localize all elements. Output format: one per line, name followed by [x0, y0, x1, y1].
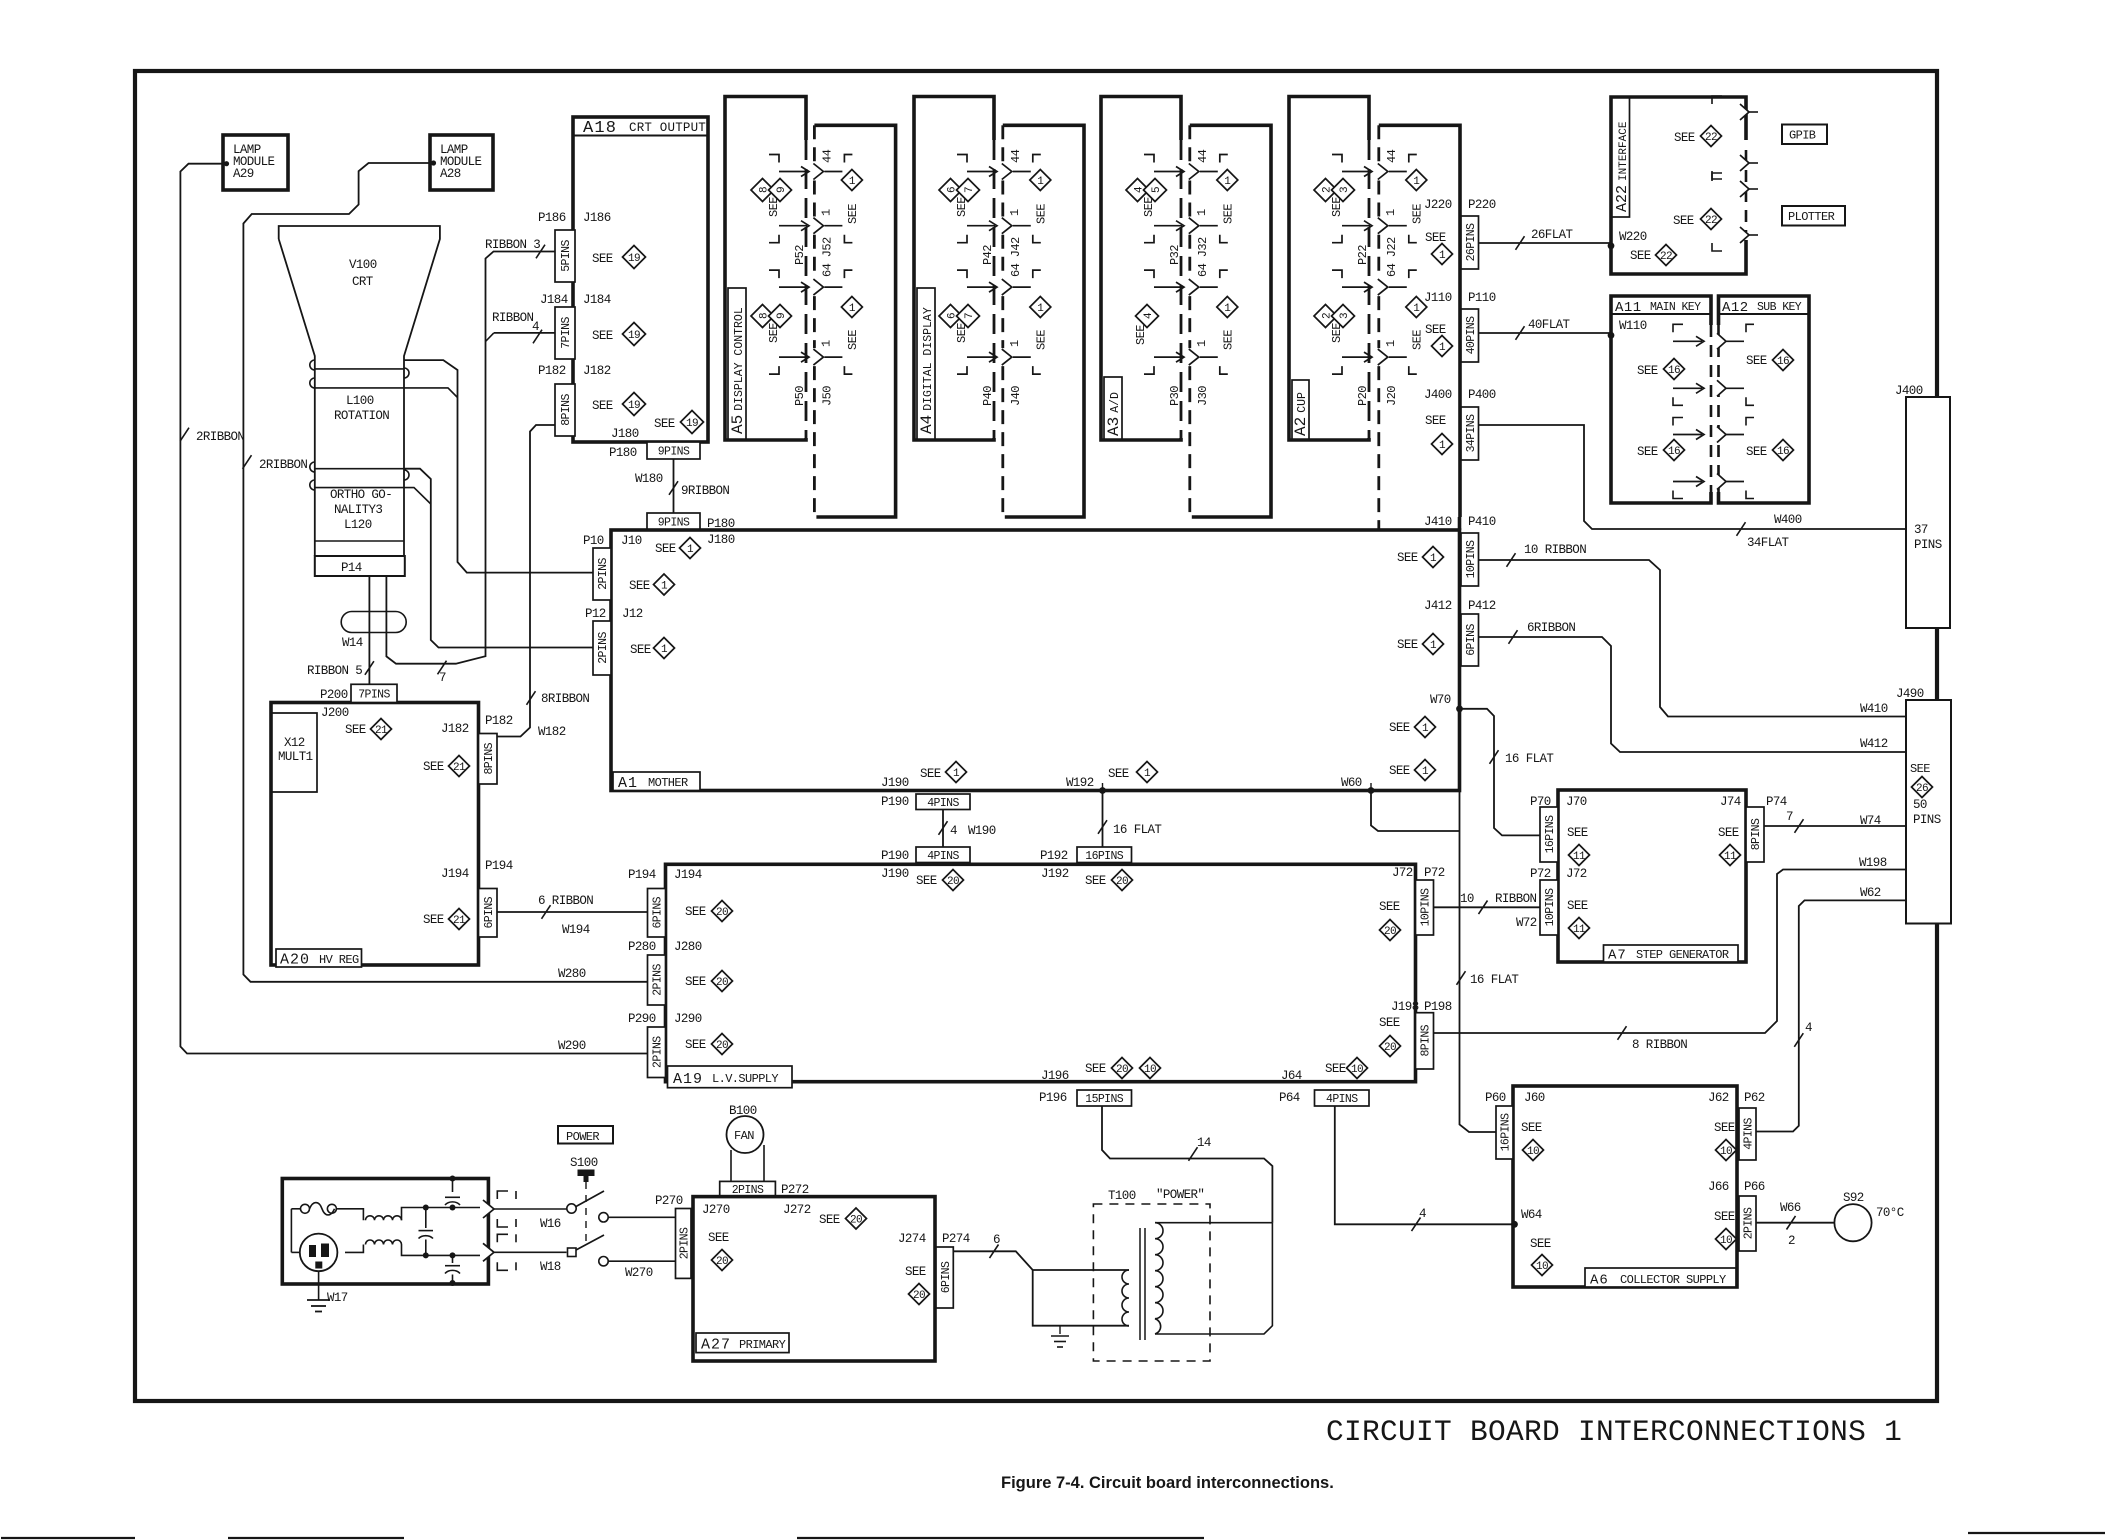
label J490 [1896, 687, 1924, 701]
svg-text:1: 1 [661, 581, 668, 593]
svg-text:26PINS: 26PINS [1465, 223, 1478, 262]
svg-text:S100: S100 [570, 1156, 598, 1170]
pin markers 44/1 and 64 J42 labels [981, 149, 1023, 347]
svg-text:RIBBON: RIBBON [1495, 892, 1537, 906]
label 8 RIBBON (W182) [538, 692, 589, 739]
svg-text:SEE: SEE [846, 330, 860, 350]
svg-text:22: 22 [1660, 251, 1672, 263]
svg-text:W18: W18 [540, 1260, 561, 1274]
svg-text:P290: P290 [628, 1012, 656, 1026]
svg-text:19: 19 [628, 400, 640, 412]
board label A6 COLLECTOR SUPPLY [1585, 1268, 1736, 1289]
svg-text:10 RIBBON: 10 RIBBON [1524, 543, 1586, 557]
wire W66 to thermal switch S92 [1756, 1216, 1834, 1230]
svg-text:J184: J184 [540, 293, 568, 307]
svg-text:SEE: SEE [819, 1213, 840, 1227]
labels 4 / W190 [950, 824, 996, 838]
svg-text:1: 1 [1195, 340, 1209, 347]
svg-text:10: 10 [1536, 1261, 1548, 1273]
svg-text:2RIBBON: 2RIBBON [259, 458, 307, 472]
svg-text:10: 10 [1144, 1064, 1156, 1076]
svg-text:SEE: SEE [1085, 874, 1106, 888]
board label A1 MOTHER [613, 772, 700, 792]
svg-text:16 FLAT: 16 FLAT [1470, 973, 1519, 987]
svg-text:5: 5 [1151, 187, 1163, 193]
svg-text:RIBBON 3: RIBBON 3 [485, 238, 540, 252]
svg-text:P400: P400 [1468, 388, 1496, 402]
svg-text:2PINS: 2PINS [1743, 1207, 1756, 1239]
svg-text:SEE: SEE [1142, 197, 1156, 217]
svg-text:6PINS: 6PINS [652, 896, 665, 928]
see-ref 19 (J186) [592, 246, 646, 269]
svg-text:SEE: SEE [592, 329, 613, 343]
svg-text:SEE: SEE [920, 767, 941, 781]
svg-text:3: 3 [1339, 187, 1351, 193]
svg-text:5PINS: 5PINS [560, 240, 573, 272]
svg-text:FAN: FAN [734, 1129, 754, 1143]
pin row chevron/arrow J42 row 3 [957, 270, 1041, 295]
switch S100 [570, 1156, 598, 1246]
svg-text:J60: J60 [1524, 1091, 1545, 1105]
junction W110 [1608, 319, 1647, 339]
svg-text:P72: P72 [1424, 866, 1445, 880]
svg-text:SEE: SEE [685, 905, 706, 919]
connector P60 J60 16PINS [1485, 1091, 1545, 1159]
label W290 [558, 1039, 586, 1053]
label RIBBON 3 [485, 238, 540, 252]
svg-text:J198: J198 [1391, 1000, 1419, 1014]
sheet title CIRCUIT BOARD INTERCONNECTIONS 1 [1326, 1415, 1902, 1449]
connector J74 P74 8PINS [1720, 795, 1787, 862]
connector P194 J194 6PINS on A19 [628, 868, 702, 937]
connector J194 P194 6PINS on A20 [441, 859, 513, 937]
see-ref 16 (A12 upper) [1746, 350, 1794, 371]
board A18 CRT OUTPUT [573, 117, 708, 442]
label 2 RIBBON (A28 wire) [259, 458, 307, 472]
svg-text:L100: L100 [346, 394, 374, 408]
svg-text:V100: V100 [349, 258, 377, 272]
see-ref 10 (J66) [1714, 1210, 1737, 1250]
svg-text:SEE: SEE [1410, 204, 1424, 224]
svg-text:40PINS: 40PINS [1465, 316, 1478, 355]
bus wire continuing down to A6 P60 (16 FLAT) [1457, 791, 1497, 1133]
svg-text:SEE: SEE [1714, 1210, 1735, 1224]
see-ref 1 (J412) [1397, 634, 1444, 655]
svg-text:SEE: SEE [1397, 551, 1418, 565]
wire W74 to J490 [1764, 819, 1906, 833]
wire 14 from A19 P196 to T100 secondary [1102, 1106, 1272, 1223]
svg-text:1: 1 [1008, 340, 1022, 347]
svg-text:20: 20 [716, 907, 728, 919]
svg-text:POWER: POWER [566, 1130, 599, 1144]
A22 edge chevron connectors [1712, 96, 1758, 251]
svg-text:SEE: SEE [629, 579, 650, 593]
connector J412 P412 6PINS [1424, 599, 1496, 666]
svg-text:W16: W16 [540, 1217, 561, 1231]
wire W16 to switch S100 [494, 1191, 676, 1231]
svg-text:J400: J400 [1895, 384, 1923, 398]
pin row chevron/arrow J22 row 3 [1332, 270, 1417, 295]
wire W72 10 RIBBON [1434, 901, 1541, 915]
svg-text:W182: W182 [538, 725, 566, 739]
svg-text:W180: W180 [635, 472, 663, 486]
svg-text:ROTATION: ROTATION [334, 409, 389, 423]
label 16 FLAT (lower) [1470, 973, 1519, 987]
wire from L120 coil to A1 J12 [404, 469, 593, 648]
svg-text:21: 21 [453, 915, 466, 927]
svg-text:P40: P40 [981, 386, 995, 406]
board label A20 HV REG [276, 949, 362, 969]
connector P192 16PINS [1040, 847, 1132, 881]
AC plug [291, 1234, 337, 1272]
svg-text:"POWER": "POWER" [1156, 1188, 1204, 1202]
svg-text:SEE: SEE [905, 1265, 926, 1279]
see-ref 1 (J110) [1425, 323, 1453, 357]
connector column box J22 [1379, 125, 1460, 517]
svg-text:10: 10 [1460, 892, 1474, 906]
svg-text:SEE: SEE [1746, 354, 1767, 368]
see-ref 20 (J194 A19) [685, 901, 733, 922]
svg-text:J20: J20 [1385, 386, 1399, 406]
connector J110 P110 40PINS [1424, 291, 1496, 362]
see-ref 21 (J182 A20) [423, 756, 470, 777]
svg-text:ORTHO GO-: ORTHO GO- [330, 488, 392, 502]
svg-text:W60: W60 [1341, 776, 1362, 790]
connector column box J52 [814, 125, 895, 517]
svg-text:L120: L120 [344, 518, 372, 532]
connector J182 (P182 8PINS) [538, 364, 611, 436]
svg-text:SEE: SEE [1521, 1121, 1542, 1135]
svg-text:P200: P200 [320, 688, 348, 702]
svg-text:16: 16 [1668, 365, 1680, 377]
svg-text:SEE: SEE [1567, 826, 1588, 840]
connector P70 J70 16PINS [1530, 795, 1587, 862]
wire labels W410 W412 W74 W198 W62 [1859, 702, 1888, 900]
svg-text:SEE: SEE [1330, 323, 1344, 343]
see-ref 19 (J184) [592, 323, 646, 346]
svg-text:J180: J180 [611, 427, 639, 441]
svg-text:64 J32: 64 J32 [1196, 237, 1210, 277]
connector column box J42 [1003, 125, 1084, 517]
svg-text:SEE: SEE [846, 204, 860, 224]
svg-text:J180: J180 [707, 533, 735, 547]
svg-text:A20: A20 [280, 952, 310, 969]
svg-text:W110: W110 [1619, 319, 1647, 333]
svg-text:1: 1 [1413, 176, 1420, 188]
junction W60 wire to bus [1341, 776, 1460, 831]
svg-text:44: 44 [1196, 149, 1210, 163]
labels W66 / 2 [1780, 1201, 1801, 1248]
svg-text:J194: J194 [674, 868, 702, 882]
rotated labels P20 / J20 at column bottom [1356, 386, 1399, 406]
A11-A12 arrow rows [1673, 324, 1754, 498]
svg-text:37: 37 [1914, 523, 1928, 537]
pin row chevron/arrow J52 row 4 [769, 349, 852, 374]
wire W290 ribbon from lamp module A29 to A19 P290 [180, 164, 648, 1054]
svg-text:J280: J280 [674, 940, 702, 954]
see-refs 20 10 (J196) [1085, 1058, 1161, 1079]
svg-text:SEE: SEE [1221, 330, 1235, 350]
svg-text:SEE: SEE [1746, 445, 1767, 459]
svg-text:50: 50 [1913, 798, 1927, 812]
svg-text:A18: A18 [583, 119, 617, 138]
svg-text:SEE: SEE [1379, 900, 1400, 914]
svg-text:A19: A19 [673, 1071, 703, 1088]
see-ref 22 (mid) [1673, 209, 1722, 230]
svg-text:7: 7 [1786, 810, 1793, 824]
svg-text:70°C: 70°C [1876, 1206, 1904, 1220]
svg-text:10PINS: 10PINS [1465, 540, 1478, 579]
svg-text:9PINS: 9PINS [658, 517, 690, 530]
diagram border frame [135, 71, 1937, 1401]
svg-text:J182: J182 [441, 722, 469, 736]
see-ref 10 (W64) [1530, 1237, 1553, 1276]
board A6 COLLECTOR SUPPLY [1513, 1086, 1737, 1287]
svg-text:11: 11 [1724, 851, 1737, 863]
svg-text:P74: P74 [1766, 795, 1787, 809]
connector J10 P10 2PINS [583, 534, 642, 600]
lamp module A29 [223, 135, 288, 190]
see-ref 1 lower right (J22) [1406, 297, 1427, 351]
ground W17 [307, 1271, 348, 1311]
svg-text:P412: P412 [1468, 599, 1496, 613]
connector J400 37 PINS [1906, 397, 1950, 628]
svg-text:NALITY3: NALITY3 [334, 503, 382, 517]
svg-text:P52: P52 [793, 245, 807, 265]
svg-text:1: 1 [849, 303, 856, 315]
svg-text:W412: W412 [1860, 737, 1888, 751]
see-ref 20 (J274) [905, 1265, 930, 1305]
connector J180 label [611, 427, 639, 441]
svg-text:SEE: SEE [1134, 325, 1148, 345]
board A19 L.V.SUPPLY [666, 864, 1416, 1081]
svg-text:4: 4 [1805, 1021, 1812, 1035]
board-edge dashed lines (J42 column) [994, 125, 1003, 517]
svg-text:20: 20 [850, 1215, 862, 1227]
see-refs 2/3 upper group (J22) [1314, 179, 1355, 218]
svg-text:34FLAT: 34FLAT [1747, 536, 1790, 550]
svg-text:A7: A7 [1608, 948, 1627, 964]
PLOTTER box [1782, 206, 1845, 226]
svg-text:6PINS: 6PINS [1465, 624, 1478, 656]
svg-text:P190: P190 [881, 849, 909, 863]
svg-text:SEE: SEE [1425, 231, 1446, 245]
svg-text:16 FLAT: 16 FLAT [1113, 823, 1162, 837]
svg-text:1: 1 [1413, 303, 1420, 315]
label 7 (W74) [1786, 810, 1793, 824]
connector J186 (P186 5PINS) [538, 211, 611, 282]
svg-text:20: 20 [947, 876, 959, 888]
power entry module [282, 1179, 488, 1285]
svg-text:J74: J74 [1720, 795, 1741, 809]
svg-text:P192: P192 [1040, 849, 1068, 863]
power module output chevrons [483, 1191, 516, 1270]
see-ref 1 lower right (J52) [841, 297, 862, 351]
transformer ground [1051, 1326, 1069, 1347]
wire from P64 down to W64 [0, 0, 1, 1]
svg-text:1: 1 [1430, 640, 1437, 652]
svg-text:P182: P182 [538, 364, 566, 378]
svg-text:1: 1 [1439, 250, 1446, 262]
svg-text:W74: W74 [1860, 814, 1881, 828]
svg-text:9: 9 [776, 187, 788, 193]
connector J62 P62 4PINS [1708, 1091, 1765, 1160]
board-edge dashed lines (J32 column) [1181, 125, 1190, 517]
board A2 CUP [1289, 97, 1369, 441]
see-ref 1 upper right (J52) [841, 170, 862, 225]
see-ref 11 (J72 A7) [1567, 899, 1590, 939]
see-ref 1 upper right (J22) [1406, 170, 1427, 225]
labels W400 / 34FLAT [1747, 513, 1802, 550]
svg-text:SEE: SEE [1425, 323, 1446, 337]
svg-text:J10: J10 [621, 534, 642, 548]
svg-text:P62: P62 [1744, 1091, 1765, 1105]
svg-text:W410: W410 [1860, 702, 1888, 716]
wire W410 10 RIBBON to J490 [1479, 553, 1907, 716]
coil ORTHOGONALITY3 L120 [310, 462, 409, 541]
svg-text:16: 16 [1668, 446, 1680, 458]
label RIBBON 4 [492, 311, 539, 334]
connector J182 P182 8PINS on A20 [441, 714, 513, 784]
label 2 RIBBON (A29 wire) [196, 430, 244, 444]
svg-text:1: 1 [1224, 303, 1231, 315]
svg-text:P220: P220 [1468, 198, 1496, 212]
svg-text:44: 44 [820, 149, 834, 163]
svg-text:16: 16 [1777, 356, 1789, 368]
svg-text:1: 1 [1439, 342, 1446, 354]
svg-text:P180: P180 [609, 446, 637, 460]
svg-text:W14: W14 [342, 636, 363, 650]
svg-text:W64: W64 [1521, 1208, 1542, 1222]
wire W194 6 RIBBON A20 to A19 [497, 905, 648, 919]
svg-text:20: 20 [716, 1256, 728, 1268]
svg-text:6 RIBBON: 6 RIBBON [538, 894, 593, 908]
svg-text:J72: J72 [1566, 867, 1587, 881]
svg-text:W66: W66 [1780, 1201, 1801, 1215]
see-ref 16 (A11 lower) [1637, 440, 1685, 461]
svg-text:W194: W194 [562, 923, 590, 937]
svg-text:SEE: SEE [767, 197, 781, 217]
wire W220 26FLAT to A22 [1479, 236, 1612, 250]
CRT base plug P14 [315, 556, 405, 576]
svg-text:19: 19 [628, 253, 640, 265]
svg-text:7: 7 [964, 313, 976, 319]
svg-text:J72: J72 [1392, 866, 1413, 880]
see-ref 1 lower right (J32) [1217, 297, 1238, 351]
svg-text:SEE: SEE [1630, 249, 1651, 263]
wire W18 to switch S100 [494, 1235, 676, 1274]
svg-text:SEE: SEE [1718, 826, 1739, 840]
svg-text:20: 20 [1116, 876, 1128, 888]
svg-text:MAIN KEY: MAIN KEY [1650, 301, 1701, 314]
svg-text:SEE: SEE [1330, 197, 1344, 217]
pin row chevron/arrow J42 row 1 [957, 155, 1041, 180]
pin row chevron/arrow J22 row 2 [1332, 218, 1417, 243]
see-ref 10 (J60) [1521, 1121, 1544, 1161]
see-ref 1 pair 2 below W70 [1389, 760, 1436, 781]
svg-text:Figure 7-4. Circuit board inte: Figure 7-4. Circuit board interconnectio… [1001, 1474, 1334, 1492]
svg-text:SEE: SEE [685, 1038, 706, 1052]
svg-text:6PINS: 6PINS [940, 1261, 953, 1293]
svg-text:P64: P64 [1279, 1091, 1300, 1105]
svg-text:J64: J64 [1281, 1069, 1302, 1083]
svg-text:SEE: SEE [655, 542, 676, 556]
see-ref 1 (W192) [1108, 762, 1158, 783]
svg-text:19: 19 [628, 330, 640, 342]
cable marker W14 [341, 612, 406, 651]
svg-text:8 RIBBON: 8 RIBBON [1632, 1038, 1687, 1052]
svg-text:2: 2 [1788, 1234, 1795, 1248]
connector J184 (7PINS) [540, 293, 611, 359]
connector J12 P12 2PINS [585, 607, 643, 675]
svg-text:6: 6 [993, 1233, 1000, 1247]
svg-text:1: 1 [1037, 303, 1044, 315]
svg-text:W72: W72 [1516, 916, 1537, 930]
board A1 MOTHER [611, 517, 1460, 791]
see-ref 22 (W220) [1630, 245, 1677, 266]
board A22 INTERFACE [1611, 97, 1746, 274]
see-ref 21 (J200) [345, 719, 392, 740]
svg-text:10PINS: 10PINS [1420, 888, 1433, 927]
svg-text:4PINS: 4PINS [1326, 1093, 1358, 1106]
see-ref 1 (J180 on A1) [655, 533, 735, 559]
see-ref 1 upper right (J42) [1030, 170, 1051, 225]
svg-text:3: 3 [1339, 313, 1351, 319]
svg-text:P50: P50 [793, 386, 807, 406]
pin row chevron/arrow J52 row 1 [769, 155, 852, 180]
svg-text:A28: A28 [440, 167, 461, 181]
lamp module A28 [430, 135, 493, 190]
svg-text:26FLAT: 26FLAT [1531, 228, 1574, 242]
svg-text:A1: A1 [618, 775, 638, 792]
connector J410 P410 10PINS [1424, 515, 1496, 586]
svg-text:P14: P14 [341, 561, 362, 575]
svg-text:SEE: SEE [345, 723, 366, 737]
see-refs lower group (J22) [1314, 305, 1355, 344]
svg-text:J220: J220 [1424, 198, 1452, 212]
svg-text:64 J52: 64 J52 [820, 237, 834, 277]
wire W182 8 RIBBON from A18 P182 to A20 P182 [497, 425, 555, 737]
svg-text:STEP GENERATOR: STEP GENERATOR [1636, 948, 1729, 962]
svg-text:P196: P196 [1039, 1091, 1067, 1105]
junction W220 [1608, 230, 1647, 249]
svg-text:P30: P30 [1168, 386, 1182, 406]
svg-text:SEE: SEE [1389, 764, 1410, 778]
svg-text:1: 1 [953, 768, 960, 780]
svg-text:SEE: SEE [1034, 204, 1048, 224]
svg-text:8PINS: 8PINS [560, 394, 573, 426]
connector P200 7PINS on A20 [320, 684, 397, 720]
svg-text:1: 1 [1422, 766, 1429, 778]
svg-text:P410: P410 [1468, 515, 1496, 529]
svg-text:P12: P12 [585, 607, 606, 621]
see-ref 1 (J400) [1425, 414, 1453, 455]
svg-text:7: 7 [439, 671, 446, 685]
see-ref 1 (J12) [630, 638, 675, 659]
svg-text:W400: W400 [1774, 513, 1802, 527]
labels 6 RIBBON / W194 [538, 894, 593, 937]
svg-text:44: 44 [1385, 149, 1399, 163]
svg-text:MULT1: MULT1 [278, 750, 313, 764]
svg-text:11: 11 [1573, 924, 1586, 936]
svg-text:2PINS: 2PINS [652, 1036, 665, 1068]
svg-text:10: 10 [1527, 1146, 1539, 1158]
pin row chevron/arrow J32 row 4 [1144, 349, 1228, 374]
board label A27 PRIMARY [696, 1333, 789, 1354]
svg-text:SEE: SEE [592, 252, 613, 266]
see-ref 19 (J182) [592, 393, 646, 416]
svg-text:1: 1 [1144, 768, 1151, 780]
